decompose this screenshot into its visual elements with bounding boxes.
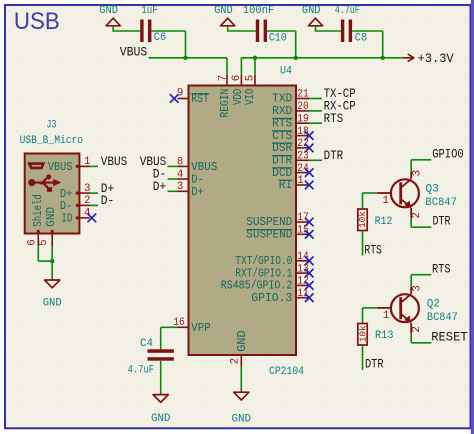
svg-text:TXT/GPIO.0: TXT/GPIO.0	[235, 255, 292, 268]
svg-text:DTR: DTR	[272, 155, 292, 168]
svg-text:R12: R12	[375, 216, 393, 228]
svg-text:D-: D-	[191, 174, 204, 187]
J3 pin 4 ID no-connect	[79, 217, 89, 219]
svg-text:SUSPEND: SUSPEND	[246, 216, 292, 229]
wire VBUS bus to REGIN	[149, 57, 228, 59]
svg-text:BC847: BC847	[425, 197, 457, 209]
svg-text:16: 16	[173, 317, 185, 329]
svg-text:C6: C6	[154, 32, 167, 44]
svg-text:Shield: Shield	[32, 194, 45, 227]
power symbol GND top-3	[308, 18, 322, 26]
svg-text:18: 18	[297, 126, 309, 138]
svg-text:6: 6	[231, 75, 243, 81]
svg-text:5: 5	[245, 75, 257, 81]
svg-text:DTR: DTR	[324, 148, 344, 163]
power symbol +3.3V arrow	[402, 54, 414, 61]
svg-text:GPIO0: GPIO0	[432, 147, 464, 162]
resistor R12	[358, 209, 367, 231]
IC U4 CP2104 body	[189, 86, 297, 356]
junction VIO rail	[253, 56, 257, 60]
junction C8 rail	[381, 56, 385, 60]
svg-text:9: 9	[177, 87, 183, 99]
svg-text:4.7uF: 4.7uF	[128, 364, 155, 376]
svg-text:REGIN: REGIN	[219, 89, 232, 118]
J3 pin 6 Shield	[37, 234, 39, 247]
svg-text:TXD: TXD	[272, 93, 292, 106]
svg-text:DCD: DCD	[272, 167, 292, 180]
svg-text:23: 23	[297, 151, 309, 163]
wire C10 to 3.3V rail	[267, 30, 296, 32]
svg-text:4.7uF: 4.7uF	[335, 5, 360, 17]
svg-text:C4: C4	[140, 338, 153, 350]
svg-text:12: 12	[297, 276, 309, 288]
svg-text:D-: D-	[60, 200, 73, 213]
svg-text:GPIO.3: GPIO.3	[251, 292, 292, 305]
U4 pin 20 RXD	[296, 110, 309, 112]
capacitor C10	[256, 20, 259, 43]
svg-text:5: 5	[38, 239, 50, 245]
svg-text:GND: GND	[45, 207, 58, 227]
svg-text:14: 14	[297, 251, 309, 263]
U4 pin 24 DCD	[296, 172, 309, 174]
junction shield-gnd	[50, 259, 54, 263]
U4 pin 17 SUSPEND	[296, 221, 309, 223]
svg-text:Q2: Q2	[427, 298, 440, 310]
power symbol GND top-2	[221, 18, 235, 26]
U4 pin 1 RI	[296, 184, 309, 186]
wire R12 to RTS label	[362, 231, 364, 256]
svg-text:3: 3	[411, 170, 423, 176]
svg-text:1uF: 1uF	[141, 5, 158, 17]
svg-text:C10: C10	[269, 33, 287, 45]
svg-text:RST: RST	[191, 93, 209, 106]
svg-text:RXD: RXD	[272, 105, 292, 118]
svg-text:RS485/GPIO.2: RS485/GPIO.2	[221, 280, 293, 293]
svg-text:2: 2	[229, 358, 241, 364]
J3 pin 3 D+	[79, 192, 90, 194]
wire R13 to DTR label	[362, 345, 364, 370]
svg-text:SUSPEND: SUSPEND	[246, 229, 292, 242]
U4 pin 22 DSR	[296, 147, 309, 149]
svg-text:VBUS: VBUS	[191, 161, 217, 174]
wire +3.3V rail	[240, 58, 242, 75]
svg-text:4: 4	[84, 208, 90, 220]
svg-text:VIO: VIO	[244, 89, 257, 105]
svg-text:RI: RI	[279, 179, 293, 192]
svg-text:8: 8	[177, 156, 183, 168]
wire Q2 base to R13	[363, 307, 378, 309]
J3 pin 5 GND	[51, 234, 53, 247]
svg-text:4: 4	[177, 169, 183, 181]
capacitor C6	[140, 20, 143, 43]
svg-text:VBUS: VBUS	[120, 44, 148, 59]
svg-text:GND: GND	[214, 5, 233, 17]
svg-text:VPP: VPP	[191, 322, 211, 335]
wire RTS to Q2 collector	[411, 274, 431, 276]
U4 pin 19 RTS	[296, 122, 309, 124]
svg-text:2: 2	[411, 326, 423, 332]
wire VPP to C4	[160, 327, 162, 349]
Q2 emitter to RESET	[410, 323, 412, 333]
U4 pin 4 D-	[168, 178, 178, 180]
junction C6-VBUS	[183, 56, 187, 60]
U4 pin 16 VPP	[161, 326, 178, 328]
svg-text:RTS: RTS	[364, 243, 382, 258]
right window strip	[471, 0, 474, 434]
svg-text:CTS: CTS	[272, 130, 292, 143]
svg-text:1: 1	[383, 195, 389, 207]
svg-text:1: 1	[383, 310, 389, 322]
svg-text:19: 19	[297, 113, 309, 125]
svg-text:GND: GND	[232, 413, 252, 425]
J3 pin 1 VBUS	[79, 165, 90, 167]
ground symbol below C4	[153, 395, 168, 403]
capacitor C8	[341, 20, 344, 43]
svg-text:ID: ID	[61, 213, 72, 226]
svg-text:CP2104: CP2104	[269, 366, 304, 378]
U4 pin 13 RXT/GPIO.1	[296, 272, 309, 274]
svg-text:7: 7	[217, 75, 229, 81]
USB trident icon	[28, 174, 61, 191]
U4 pin 12 RS485/GPIO.2	[296, 284, 309, 286]
svg-text:USB: USB	[14, 8, 60, 35]
svg-text:GND: GND	[302, 5, 321, 17]
svg-text:13: 13	[297, 263, 309, 275]
Q3 emitter to DTR	[410, 208, 412, 218]
wire gnd2 to C10	[227, 26, 229, 31]
wire GPIO0 to Q3 collector	[411, 159, 431, 161]
svg-text:2: 2	[84, 195, 90, 207]
svg-text:D+: D+	[191, 186, 204, 199]
svg-text:2: 2	[411, 212, 423, 218]
U4 pin 21 TXD	[296, 98, 309, 100]
wire C4 to ground	[160, 361, 162, 395]
wire shield join	[38, 260, 52, 262]
U4 pin 23 DTR	[296, 159, 309, 161]
svg-text:11: 11	[297, 288, 309, 300]
U4 pin 3 D+	[168, 190, 178, 192]
svg-text:Q3: Q3	[425, 183, 439, 195]
svg-text:10k: 10k	[359, 325, 369, 342]
svg-text:GND: GND	[43, 297, 62, 309]
svg-text:DSR: DSR	[272, 142, 292, 155]
U4 pin 11 GPIO.3	[296, 297, 309, 299]
J3 pin 2 D-	[79, 204, 90, 206]
U4 top pin 5 VIO	[254, 75, 256, 86]
wire gnd1 to C6	[112, 26, 114, 31]
transistor Q3	[391, 179, 419, 207]
svg-text:GND: GND	[151, 413, 171, 425]
ground symbol below J3	[45, 280, 60, 288]
wire C8 to 3.3V rail	[352, 30, 383, 32]
svg-text:RTS: RTS	[432, 261, 451, 276]
svg-text:RTS: RTS	[272, 117, 292, 130]
wire gnd3 to C8	[315, 26, 317, 31]
svg-text:1: 1	[84, 156, 90, 168]
U4 pin 18 CTS	[296, 135, 309, 137]
ground symbol below U4	[234, 392, 249, 400]
svg-text:R13: R13	[375, 330, 394, 342]
U4 top pin 7 REGIN	[226, 75, 228, 86]
svg-text:D+: D+	[153, 179, 167, 194]
svg-text:VBUS: VBUS	[48, 161, 73, 174]
svg-text:J3: J3	[47, 120, 57, 132]
svg-text:15: 15	[297, 225, 309, 237]
svg-text:1: 1	[297, 175, 303, 187]
junction C10 rail	[294, 56, 298, 60]
svg-text:24: 24	[297, 163, 309, 175]
U4 pin 8 VBUS	[168, 165, 178, 167]
USB plug icon	[27, 162, 45, 169]
svg-text:VBUS: VBUS	[101, 154, 128, 169]
svg-text:21: 21	[297, 89, 309, 101]
svg-text:+3.3V: +3.3V	[418, 51, 454, 66]
svg-text:100nF: 100nF	[243, 5, 275, 17]
wire C6 to junction	[151, 30, 185, 32]
resistor R13	[358, 324, 367, 346]
svg-text:DTR: DTR	[433, 213, 451, 228]
svg-text:10k: 10k	[358, 211, 368, 228]
transistor Q2	[391, 294, 419, 322]
J3 pin connection dots	[76, 165, 79, 168]
svg-text:D-: D-	[101, 193, 115, 208]
U4 bottom pin 2 GND	[240, 355, 242, 366]
svg-text:3: 3	[177, 181, 183, 193]
svg-text:GND: GND	[236, 330, 249, 351]
svg-text:22: 22	[297, 138, 309, 150]
U4 top pin 6 VDD	[240, 75, 242, 86]
svg-text:U4: U4	[280, 65, 292, 77]
svg-text:DTR: DTR	[365, 357, 384, 372]
U4 pin 15 SUSPEND	[296, 233, 309, 235]
svg-text:17: 17	[297, 212, 309, 224]
svg-text:D+: D+	[60, 188, 73, 201]
svg-text:USB_B_Micro: USB_B_Micro	[20, 135, 84, 147]
svg-text:20: 20	[297, 101, 309, 113]
U4 pin 14 TXT/GPIO.0	[296, 260, 309, 262]
svg-text:3: 3	[84, 183, 90, 195]
U4 pin 9 RST no-connect	[178, 98, 189, 100]
svg-text:BC847: BC847	[427, 312, 458, 324]
svg-text:3: 3	[411, 285, 423, 291]
svg-text:RTS: RTS	[324, 111, 344, 126]
svg-text:RESET: RESET	[431, 330, 468, 345]
svg-text:6: 6	[27, 239, 39, 245]
wire Q3 base to R12	[363, 192, 378, 194]
power symbol GND top-1	[106, 18, 120, 26]
svg-text:RXT/GPIO.1: RXT/GPIO.1	[235, 267, 292, 280]
svg-text:GND: GND	[99, 5, 118, 17]
svg-text:C8: C8	[355, 33, 368, 45]
connector J3 USB_B_Micro body	[25, 154, 80, 234]
capacitor C4	[148, 349, 174, 353]
